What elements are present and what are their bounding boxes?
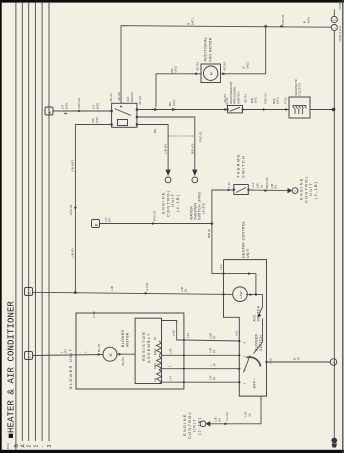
svg-text:OFF←: OFF← <box>253 377 257 389</box>
svg-text:(2-1B): (2-1B) <box>196 417 201 435</box>
frame line <box>15 3 17 450</box>
twisted pair dotted bridge <box>168 135 195 137</box>
A/C relay box <box>112 103 137 127</box>
junction relay coil drop <box>74 291 77 294</box>
connector AC-01 mark <box>224 108 227 111</box>
svg-text:6: 6 <box>332 362 336 364</box>
svg-text:B: B <box>94 223 98 226</box>
connector FAC-01 mark <box>74 207 77 210</box>
wire relay to WTS drop <box>137 117 195 170</box>
node square 2 <box>25 288 33 296</box>
svg-text:AC-02: AC-02 <box>195 62 199 71</box>
svg-text:(I): (I) <box>259 185 263 188</box>
thermo switch box <box>234 185 249 195</box>
svg-text:L/R: L/R <box>169 348 173 354</box>
svg-text:SWITCH: SWITCH <box>241 155 246 178</box>
svg-text:FAC-01: FAC-01 <box>263 93 267 104</box>
arrowhead internal <box>248 272 251 275</box>
right long line <box>333 31 335 440</box>
bus end labels <box>14 444 53 448</box>
refrigerant pressure switch box <box>228 106 243 113</box>
svg-text:SWITCH: SWITCH <box>259 335 263 351</box>
svg-text:RELAY: RELAY <box>130 92 134 102</box>
svg-text:(I): (I) <box>212 350 216 353</box>
node square 1 <box>25 352 33 360</box>
border top bar <box>0 0 344 3</box>
wire motor to resistor <box>117 353 135 355</box>
connector hatch I-13 top <box>223 262 225 296</box>
arrow to ECU 7 <box>288 188 293 193</box>
svg-text:(AC): (AC) <box>190 18 194 25</box>
svg-text:2: 2 <box>27 292 31 294</box>
right page connector circle 1 <box>331 24 337 30</box>
svg-text:(AC): (AC) <box>64 103 68 110</box>
wire thermo left <box>212 190 234 274</box>
blower switch wiper <box>254 342 263 354</box>
bus wire 5 <box>48 3 50 441</box>
wire relay to ECU drop <box>137 125 168 170</box>
connector FAC-01 mark <box>78 110 81 113</box>
svg-text:(F): (F) <box>274 185 278 189</box>
junction on thermo drop <box>211 222 214 225</box>
wire fan motor right <box>221 26 266 74</box>
svg-text:■HEATER & AIR CONDITIONER: ■HEATER & AIR CONDITIONER <box>7 300 17 438</box>
node B square mid <box>92 220 100 228</box>
svg-text:I-53: I-53 <box>269 358 273 364</box>
connector BL-01 mark right <box>119 353 122 356</box>
svg-text:CLUTCH: CLUTCH <box>298 83 302 96</box>
svg-text:FOR CANADA: FOR CANADA <box>338 0 342 10</box>
svg-text:I-12: I-12 <box>227 182 231 188</box>
magnetic clutch box <box>289 97 310 118</box>
svg-text:I-13: I-13 <box>235 330 239 336</box>
svg-text:(2-1B): (2-1B) <box>313 181 318 199</box>
svg-text:B/L: B/L <box>153 128 157 133</box>
svg-text:FAC-01: FAC-01 <box>199 131 203 142</box>
wire B top feed <box>121 26 331 104</box>
svg-text:AC-03: AC-03 <box>243 94 247 103</box>
svg-text:BLOWER: BLOWER <box>255 334 259 351</box>
connector AC-02 mark left <box>195 72 198 75</box>
svg-text:F-02: F-02 <box>92 311 96 318</box>
circle connector water thermo <box>192 177 198 183</box>
connector hatch I-14 <box>183 334 185 386</box>
junction fan motor feed <box>264 25 267 28</box>
border bottom bar <box>0 450 344 453</box>
svg-text:1.4W: 1.4W <box>239 291 243 298</box>
svg-text:B/G (F): B/G (F) <box>190 143 194 154</box>
wire lamp to node <box>246 294 263 296</box>
bus wire 3 <box>34 3 36 441</box>
wire blower feed <box>33 355 104 356</box>
wire ME2 out <box>162 354 184 356</box>
circle connector ECU bottom <box>200 421 206 427</box>
connector AC-02 mark right <box>223 72 226 75</box>
svg-text:(I): (I) <box>212 336 216 339</box>
svg-text:M: M <box>210 72 214 75</box>
connector F1-01 mark <box>145 292 148 295</box>
svg-text:L/B: L/B <box>110 286 114 291</box>
svg-text:AC-05: AC-05 <box>117 92 121 101</box>
svg-text:1: 1 <box>33 445 39 448</box>
svg-text:(I): (I) <box>212 377 216 380</box>
svg-text:F1-01: F1-01 <box>145 282 149 291</box>
wire LO out <box>162 381 184 383</box>
bus wire 4 <box>41 3 43 441</box>
circle connector 7 <box>292 188 298 194</box>
svg-text:3: 3 <box>243 356 247 358</box>
wire clutch to right line <box>310 109 334 111</box>
connector hatch I-13 switch <box>238 330 240 392</box>
svg-text:HEATER CONTROL: HEATER CONTROL <box>242 221 246 258</box>
bus wire 1 <box>21 3 23 441</box>
circle connector 6 <box>330 359 337 366</box>
svg-text:(F): (F) <box>217 418 221 422</box>
relay coil <box>118 120 128 126</box>
connector BL-01 mark left <box>98 353 101 356</box>
svg-text:7: 7 <box>293 190 297 192</box>
connector FAC-01 mark on B wire <box>281 25 284 28</box>
thermo switch blade <box>236 188 246 193</box>
svg-text:(I): (I) <box>184 289 188 292</box>
svg-text:FAC-01: FAC-01 <box>281 14 285 25</box>
connector hatch I-53 right <box>266 348 268 394</box>
svg-text:L: L <box>168 365 172 367</box>
svg-text:L: L <box>84 351 88 353</box>
svg-text:FAC-01: FAC-01 <box>77 98 81 109</box>
wire relay feed L/Y <box>53 110 112 112</box>
svg-text:B: B <box>48 111 52 114</box>
svg-text:L/W: L/W <box>172 330 176 336</box>
refrigerant switch blade <box>230 107 241 111</box>
svg-text:UNIT: UNIT <box>246 248 250 258</box>
blower switch output wire <box>267 361 332 363</box>
svg-text:(AC): (AC) <box>95 117 99 124</box>
relay contact <box>115 109 132 116</box>
node B square (feed to relay) <box>45 107 53 115</box>
circle connector engine control <box>165 177 171 183</box>
svg-text:SWITCH: SWITCH <box>257 305 261 321</box>
resistor assembly box <box>135 318 161 383</box>
direction arrow <box>65 113 69 115</box>
svg-text:ASSEMBLY: ASSEMBLY <box>146 332 151 363</box>
svg-text:LO: LO <box>153 377 157 382</box>
arrowhead lamp out <box>250 293 253 296</box>
svg-text:L/B (AC): L/B (AC) <box>71 160 75 172</box>
switch pin dots <box>238 340 240 342</box>
svg-text:F1-03: F1-03 <box>225 412 229 421</box>
svg-text:1: 1 <box>333 27 337 29</box>
connector FAC-01 mark <box>263 108 266 111</box>
blower motor circle <box>103 347 117 361</box>
arrow to engine control unit <box>165 170 170 176</box>
svg-text:B/R (I): B/R (I) <box>207 229 211 238</box>
additional fan motor box <box>201 64 221 83</box>
svg-text:FAN MOTOR: FAN MOTOR <box>209 37 213 61</box>
svg-text:FAC-01: FAC-01 <box>69 204 73 215</box>
svg-text:4: 4 <box>243 342 247 344</box>
svg-text:(AC): (AC) <box>174 66 178 73</box>
connector I-12 mark <box>228 189 231 192</box>
svg-text:ME2: ME2 <box>153 348 157 355</box>
svg-text:(AC): (AC) <box>245 62 249 69</box>
wire thermo right to ECU <box>248 189 288 192</box>
rail ME2 to blower switch <box>184 354 239 356</box>
svg-text:BLOWER: BLOWER <box>121 330 125 347</box>
bus wire 2 <box>28 3 30 441</box>
svg-text:FAC-01: FAC-01 <box>153 210 157 221</box>
wire fan motor left <box>156 74 201 108</box>
border left bar <box>0 0 2 453</box>
svg-text:ADDITIONAL: ADDITIONAL <box>204 37 208 62</box>
junction fan motor branch <box>154 108 157 111</box>
svg-text:1: 1 <box>27 356 31 358</box>
wire internal feed to A/C switch node <box>224 274 256 295</box>
rail ME1 to blower switch <box>184 368 239 370</box>
svg-text:(I): (I) <box>247 413 251 416</box>
svg-text:FOR U.S.A: FOR U.S.A <box>338 26 342 42</box>
wire illumination feed <box>33 292 233 294</box>
blower unit box <box>76 313 184 389</box>
svg-text:AC-01: AC-01 <box>109 93 113 102</box>
illumination lamp 1.4W <box>233 287 248 302</box>
svg-text:F-03: F-03 <box>283 97 287 104</box>
arrow to ECU bottom <box>206 421 211 426</box>
border right line <box>342 0 343 453</box>
svg-text:1: 1 <box>243 383 247 385</box>
svg-text:AC-02: AC-02 <box>223 62 227 71</box>
wire above connectors <box>333 9 335 16</box>
inline connector tick <box>172 108 174 111</box>
svg-text:HI: HI <box>153 337 157 340</box>
svg-text:(AC): (AC) <box>306 17 310 24</box>
svg-text:L/Y: L/Y <box>169 376 173 381</box>
clutch coil symbol <box>293 105 307 107</box>
wire refrig switch to clutch <box>243 109 290 111</box>
svg-text:L/B (F): L/B (F) <box>164 144 168 154</box>
svg-text:ME1: ME1 <box>153 362 157 369</box>
svg-text:(2-1B): (2-1B) <box>175 194 180 212</box>
svg-text:(2-20): (2-20) <box>202 202 206 214</box>
svg-text:I-12: I-12 <box>251 182 255 188</box>
svg-text:2: 2 <box>27 445 33 448</box>
svg-text:WF2-03: WF2-03 <box>265 177 269 188</box>
svg-text:BLOWER UNIT: BLOWER UNIT <box>68 348 73 389</box>
wire relay contact out B/L <box>137 109 228 111</box>
junction right line <box>332 108 336 112</box>
wire relay coil left L/B <box>75 125 111 293</box>
rail LO to blower switch <box>184 381 239 383</box>
svg-text:MOTOR: MOTOR <box>126 332 130 347</box>
A/C switch <box>262 295 264 307</box>
heater control unit box <box>224 260 267 397</box>
svg-text:3: 3 <box>47 445 53 448</box>
svg-text:(AC): (AC) <box>172 99 176 106</box>
connector WF2-03 mark <box>265 189 268 192</box>
svg-text:(AC): (AC) <box>276 97 280 104</box>
wire B to thermo branch <box>100 223 212 225</box>
rail HI to blower switch <box>184 340 239 341</box>
relay pin squares <box>111 110 113 112</box>
arrow to water thermo switch <box>192 170 197 176</box>
wire ME1 out <box>162 368 184 370</box>
junction node <box>255 293 257 295</box>
svg-text:AC-01: AC-01 <box>138 96 142 105</box>
connector F1-03 mark <box>225 422 228 425</box>
svg-text:(AC): (AC) <box>95 103 99 110</box>
fan motor circle M <box>204 66 218 80</box>
svg-text:2: 2 <box>243 369 247 371</box>
svg-text:SWITCH: SWITCH <box>236 91 240 103</box>
svg-text:5: 5 <box>333 19 337 21</box>
wire OFF return to ECU <box>210 396 261 424</box>
svg-text:(F): (F) <box>108 218 112 222</box>
wire HI bypass <box>162 321 184 341</box>
svg-text:I-14: I-14 <box>186 332 190 338</box>
svg-text:BL-01: BL-01 <box>121 357 125 366</box>
svg-text:(F): (F) <box>64 349 68 353</box>
connector FAC-01 mark <box>152 222 155 225</box>
svg-text:M: M <box>109 353 113 356</box>
svg-text:(AC): (AC) <box>254 97 258 104</box>
svg-text:(I): (I) <box>212 363 216 366</box>
ground blob bottom right <box>331 438 337 444</box>
resistor elements <box>157 341 162 355</box>
svg-text:(I): (I) <box>296 357 300 360</box>
svg-text:CX3: CX3 <box>6 443 10 449</box>
svg-text:BL-01: BL-01 <box>97 343 101 352</box>
svg-text:I-13: I-13 <box>219 264 223 270</box>
right page connector circle 5 <box>331 16 337 22</box>
svg-text:AC-03: AC-03 <box>223 94 227 103</box>
connector F-03 mark <box>285 108 288 111</box>
svg-text:L/B (F): L/B (F) <box>71 248 75 258</box>
